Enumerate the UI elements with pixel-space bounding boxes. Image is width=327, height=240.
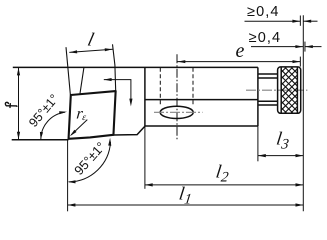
gray screw axis centerline: [246, 89, 307, 91]
body mid line: [145, 99, 258, 101]
insert (thick outline): [69, 91, 116, 139]
screw cylinder outer: [258, 73, 278, 75]
svg-text:e: e: [236, 40, 245, 62]
head bottom line right of insert + chamfer: [114, 126, 145, 135]
dimension l3: [258, 128, 303, 157]
extension below body right edge (l3): [257, 126, 259, 161]
knurled knob: [144, 65, 327, 115]
body left edge: [144, 67, 146, 126]
dimension e: [178, 40, 301, 67]
slot vertical centerline: [176, 54, 178, 140]
upper-quad right edge + l-dim extension: [113, 44, 116, 91]
head left edge (with l-dim extension above): [66, 47, 70, 95]
extension below tool tip (l1): [67, 140, 69, 212]
body right edge: [257, 67, 259, 126]
screw cylinder inner: [258, 77, 278, 79]
right common extension line: [302, 15, 304, 211]
dimension l1: [68, 183, 304, 207]
ellipse hole: [160, 106, 193, 118]
angle arc 95 deg (side cutting edge): [26, 92, 67, 140]
hidden slot edge right: [192, 68, 194, 106]
extension below body left edge (l2): [144, 126, 146, 189]
dimension ge0,4 second: [249, 30, 322, 51]
dimension l2: [145, 161, 303, 186]
dimension l: [69, 30, 112, 54]
hidden slot edge left: [159, 68, 161, 107]
svg-text:≥0,4: ≥0,4: [247, 4, 280, 20]
dimension f: [5, 68, 20, 140]
head bottom face line at tool tip: [12, 139, 69, 141]
body bottom edge: [145, 125, 258, 127]
top reference line (tool top face): [13, 66, 258, 68]
dimension ge0,4 first: [245, 4, 318, 26]
corner radius leader r_eps: [70, 105, 88, 136]
bent leader arrow into clamp: [104, 78, 133, 106]
clamp front edge: [80, 67, 84, 94]
svg-text:≥0,4: ≥0,4: [249, 30, 282, 46]
gray centerline through ellipse: [154, 111, 203, 113]
angle arc 95 deg (end cutting edge): [68, 138, 112, 184]
